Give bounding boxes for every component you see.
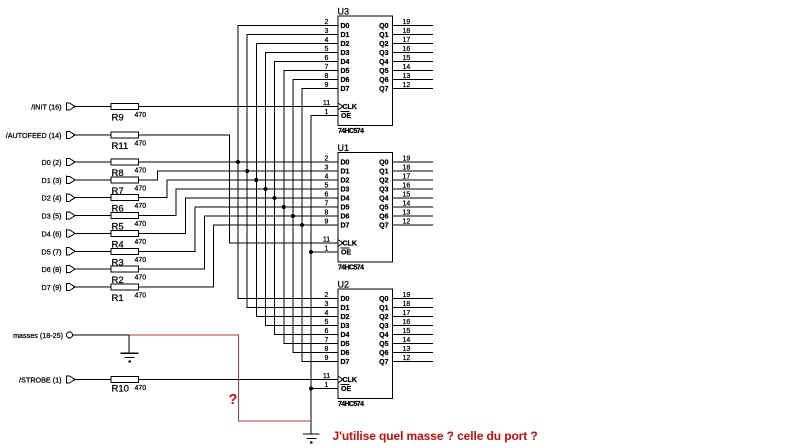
svg-text:D0 (2): D0 (2) xyxy=(42,158,62,167)
svg-text:D2 (4): D2 (4) xyxy=(42,194,62,203)
resistor R6 470 xyxy=(111,195,146,215)
svg-text:Q2: Q2 xyxy=(379,178,388,185)
wire D2 (4) to R6 xyxy=(75,197,111,199)
svg-text:R1: R1 xyxy=(112,293,124,304)
wire D5 (7) to R3 xyxy=(75,250,111,252)
resistor R1 470 xyxy=(111,284,146,304)
svg-text:D1: D1 xyxy=(341,305,350,312)
input connector D7 (9) xyxy=(42,283,75,292)
svg-text:Q4: Q4 xyxy=(379,59,388,66)
wire D2 bus vertical to U3 D2 and U2 D2 xyxy=(256,44,338,317)
svg-text:R9: R9 xyxy=(112,113,124,124)
svg-text:1: 1 xyxy=(325,382,329,389)
svg-text:D3: D3 xyxy=(341,187,350,194)
svg-text:D3: D3 xyxy=(341,50,350,57)
svg-text:D1 (3): D1 (3) xyxy=(42,176,62,185)
svg-text:470: 470 xyxy=(135,203,147,210)
U2 designator label xyxy=(338,280,350,290)
U1 designator label xyxy=(338,143,350,153)
svg-text:D5: D5 xyxy=(341,205,350,212)
U3 left pin numbers 2-9 xyxy=(325,19,329,89)
svg-text:5: 5 xyxy=(325,319,329,326)
svg-text:17: 17 xyxy=(403,174,411,181)
resistor R11 470 xyxy=(111,132,146,152)
svg-text:R10: R10 xyxy=(112,384,129,395)
U2 right pin numbers 19-12 xyxy=(403,292,411,362)
svg-text:4: 4 xyxy=(325,310,329,317)
resistor R9 470 xyxy=(111,104,146,124)
svg-text:18: 18 xyxy=(403,165,411,172)
wire D2 net: R6 to U1 D2 pin 4 xyxy=(139,180,339,198)
wire U2 OE pin 1 xyxy=(311,388,338,390)
svg-text:3: 3 xyxy=(325,165,329,172)
svg-text:8: 8 xyxy=(325,73,329,80)
wire D0 net: R8 to U1 D0 pin 2 xyxy=(139,161,339,163)
svg-text:Q6: Q6 xyxy=(379,350,388,357)
input connector D2 (4) xyxy=(42,194,75,203)
svg-text:D2: D2 xyxy=(341,314,350,321)
junction D5 bus / U1 D5 xyxy=(282,205,286,209)
input connector /STROBE (1) xyxy=(19,375,75,384)
svg-text:D3: D3 xyxy=(341,323,350,330)
svg-text:9: 9 xyxy=(325,82,329,89)
svg-text:1: 1 xyxy=(325,109,329,116)
svg-text:OE: OE xyxy=(341,113,351,120)
junction D2 bus / U1 D2 xyxy=(254,178,258,182)
svg-text:12: 12 xyxy=(403,355,411,362)
svg-text:Q0: Q0 xyxy=(379,160,388,167)
wire D1 (3) to R7 xyxy=(75,179,111,181)
ground symbol below U2 xyxy=(303,434,320,443)
svg-text:7: 7 xyxy=(325,201,329,208)
svg-text:Q7: Q7 xyxy=(379,359,388,366)
svg-text:D2: D2 xyxy=(341,41,350,48)
svg-text:Q3: Q3 xyxy=(379,50,388,57)
svg-text:U3: U3 xyxy=(338,7,350,17)
svg-text:18: 18 xyxy=(403,28,411,35)
wire D4 bus vertical to U3 D4 and U2 D4 xyxy=(275,62,338,335)
svg-text:D4: D4 xyxy=(341,59,350,66)
junction D6 bus / U1 D6 xyxy=(291,214,295,218)
resistor R3 470 xyxy=(111,248,146,268)
svg-text:Q1: Q1 xyxy=(379,32,388,39)
svg-text:Q4: Q4 xyxy=(379,196,388,203)
svg-text:470: 470 xyxy=(135,257,147,264)
svg-text:Q3: Q3 xyxy=(379,323,388,330)
wire D0 bus vertical to U3 D0 and U2 D0 xyxy=(238,26,338,299)
svg-text:15: 15 xyxy=(403,55,411,62)
svg-text:2: 2 xyxy=(325,156,329,163)
IC U3 74HC574 body xyxy=(338,16,393,126)
U1 output pin wires Q0-Q7 xyxy=(393,162,434,225)
junction D3 bus / U1 D3 xyxy=(263,187,267,191)
wire D3 (5) to R5 xyxy=(75,215,111,217)
svg-text:9: 9 xyxy=(325,355,329,362)
svg-text:2: 2 xyxy=(325,19,329,26)
svg-text:D2: D2 xyxy=(341,178,350,185)
junction OE net at U2 OE xyxy=(309,387,313,391)
svg-text:6: 6 xyxy=(325,55,329,62)
U2 output pin wires Q0-Q7 xyxy=(393,299,434,362)
svg-text:5: 5 xyxy=(325,183,329,190)
svg-text:8: 8 xyxy=(325,210,329,217)
svg-text:470: 470 xyxy=(135,168,147,175)
svg-text:Q6: Q6 xyxy=(379,77,388,84)
svg-text:D3 (5): D3 (5) xyxy=(42,212,62,221)
svg-text:7: 7 xyxy=(325,337,329,344)
svg-text:D7: D7 xyxy=(341,86,350,93)
U2 OE pin label with overline, pin 1 xyxy=(325,382,352,393)
svg-text:470: 470 xyxy=(135,141,147,148)
svg-text:CLK: CLK xyxy=(343,377,357,384)
svg-text:D4: D4 xyxy=(341,332,350,339)
svg-text:D6 (8): D6 (8) xyxy=(42,265,62,274)
U1 OE pin label with overline, pin 1 xyxy=(325,246,352,257)
U1 output pin labels Q0-Q7 xyxy=(379,160,388,230)
svg-text:470: 470 xyxy=(135,239,147,246)
svg-text:19: 19 xyxy=(403,19,411,26)
U3 input pin labels D0-D7 xyxy=(341,23,350,93)
svg-text:D6: D6 xyxy=(341,214,350,221)
ground symbol at masses xyxy=(121,335,139,362)
wire D6 (8) to R2 xyxy=(75,268,111,270)
U3 OE pin label with overline, pin 1 xyxy=(325,109,352,120)
wire D5 net: R3 to U1 D5 pin 7 xyxy=(139,207,339,251)
svg-text:12: 12 xyxy=(403,219,411,226)
wire D0 (2) to R8 xyxy=(75,161,111,163)
U2 CLK pin label with clock mark, pin 11 xyxy=(323,373,357,384)
svg-text:/INIT (16): /INIT (16) xyxy=(31,103,61,112)
svg-text:11: 11 xyxy=(323,373,330,380)
svg-text:6: 6 xyxy=(325,328,329,335)
wire /AUTOFEED (14) to R11 xyxy=(75,134,111,136)
svg-text:D7: D7 xyxy=(341,359,350,366)
svg-text:Q5: Q5 xyxy=(379,341,388,348)
svg-text:14: 14 xyxy=(403,64,411,71)
input connector D3 (5) xyxy=(42,211,75,220)
input connector D4 (6) xyxy=(42,229,75,238)
wire D3 bus vertical to U3 D3 and U2 D3 xyxy=(265,53,338,326)
svg-text:13: 13 xyxy=(403,73,411,80)
svg-text:masses (18-25): masses (18-25) xyxy=(13,331,63,340)
svg-text:470: 470 xyxy=(135,221,147,228)
wire D1 bus vertical to U3 D1 and U2 D1 xyxy=(247,35,338,308)
svg-text:470: 470 xyxy=(135,385,147,392)
wire /AUTOFEED net: R11 to U1 CLK pin 11 xyxy=(139,135,339,243)
svg-text:470: 470 xyxy=(135,112,147,119)
wire D7 net: R1 to U1 D7 pin 9 xyxy=(139,225,339,287)
wire D7 bus vertical to U3 D7 and U2 D7 xyxy=(302,89,338,362)
svg-text:Q5: Q5 xyxy=(379,68,388,75)
svg-text:/AUTOFEED (14): /AUTOFEED (14) xyxy=(6,131,62,140)
input connector /AUTOFEED (14) xyxy=(6,131,75,140)
svg-text:74HC574: 74HC574 xyxy=(338,265,364,272)
svg-text:D1: D1 xyxy=(341,32,350,39)
svg-text:11: 11 xyxy=(323,237,330,244)
svg-text:14: 14 xyxy=(403,337,411,344)
svg-text:D6: D6 xyxy=(341,77,350,84)
svg-text:470: 470 xyxy=(135,275,147,282)
IC U1 74HC574 body xyxy=(338,153,393,263)
svg-text:D5 (7): D5 (7) xyxy=(42,247,62,256)
resistor R5 470 xyxy=(111,213,146,233)
svg-text:D5: D5 xyxy=(341,68,350,75)
U3 CLK pin label with clock mark, pin 11 xyxy=(323,100,357,111)
wire OE net: U3 OE pin 1 down to ground xyxy=(311,116,338,434)
svg-text:CLK: CLK xyxy=(343,104,357,111)
svg-text:3: 3 xyxy=(325,301,329,308)
svg-text:8: 8 xyxy=(325,346,329,353)
svg-text:D7 (9): D7 (9) xyxy=(42,283,62,292)
svg-text:U1: U1 xyxy=(338,143,350,153)
red annotation question mark xyxy=(229,392,238,408)
wire /STROBE (1) to R10 xyxy=(75,379,111,381)
wire D4 (6) to R4 xyxy=(75,232,111,234)
input connector D6 (8) xyxy=(42,265,75,274)
U1 part label 74HC574 xyxy=(338,265,364,272)
svg-text:D6: D6 xyxy=(341,350,350,357)
svg-text:74HC574: 74HC574 xyxy=(338,128,364,135)
svg-text:15: 15 xyxy=(403,328,411,335)
svg-text:13: 13 xyxy=(403,210,411,217)
wire D5 bus vertical to U3 D5 and U2 D5 xyxy=(284,71,338,344)
svg-text:9: 9 xyxy=(325,219,329,226)
svg-text:4: 4 xyxy=(325,37,329,44)
svg-text:7: 7 xyxy=(325,64,329,71)
U1 left pin numbers 2-9 xyxy=(325,156,329,226)
svg-text:Q7: Q7 xyxy=(379,223,388,230)
wire D4 net: R4 to U1 D4 pin 6 xyxy=(139,198,339,233)
U3 output pin labels Q0-Q7 xyxy=(379,23,388,93)
svg-text:Q2: Q2 xyxy=(379,314,388,321)
junction OE net at U1 OE xyxy=(309,250,313,254)
svg-text:Q0: Q0 xyxy=(379,23,388,30)
svg-text:2: 2 xyxy=(325,292,329,299)
wire /STROBE net: R10 to U2 CLK pin 11 xyxy=(139,379,339,381)
svg-text:11: 11 xyxy=(323,100,330,107)
svg-text:Q7: Q7 xyxy=(379,86,388,93)
svg-text:D5: D5 xyxy=(341,341,350,348)
svg-text:D4 (6): D4 (6) xyxy=(42,229,62,238)
svg-text:Q4: Q4 xyxy=(379,332,388,339)
svg-text:19: 19 xyxy=(403,292,411,299)
svg-text:6: 6 xyxy=(325,192,329,199)
U1 CLK pin label with clock mark, pin 11 xyxy=(323,237,357,248)
wire U1 OE pin 1 xyxy=(311,251,338,253)
junction D4 bus / U1 D4 xyxy=(273,196,277,200)
U1 input pin labels D0-D7 xyxy=(341,160,350,230)
wire masses to ground tap xyxy=(73,334,130,336)
svg-text:Q1: Q1 xyxy=(379,305,388,312)
red annotation text xyxy=(333,429,538,443)
U1 right pin numbers 19-12 xyxy=(403,156,411,226)
wire D6 net: R2 to U1 D6 pin 8 xyxy=(139,216,339,269)
svg-text:4: 4 xyxy=(325,174,329,181)
junction D0 bus / U1 D0 xyxy=(236,160,240,164)
wire D6 bus vertical to U3 D6 and U2 D6 xyxy=(293,80,338,353)
U2 input pin labels D0-D7 xyxy=(341,296,350,366)
resistor R7 470 xyxy=(111,177,146,197)
wire D1 net: R7 to U1 D1 pin 3 xyxy=(139,171,339,180)
svg-text:14: 14 xyxy=(403,201,411,208)
svg-text:13: 13 xyxy=(403,346,411,353)
svg-text:12: 12 xyxy=(403,82,411,89)
svg-text:470: 470 xyxy=(135,293,147,300)
svg-text:D0: D0 xyxy=(341,160,350,167)
svg-text:/STROBE (1): /STROBE (1) xyxy=(19,376,61,385)
input connector /INIT (16) xyxy=(31,102,75,111)
svg-text:5: 5 xyxy=(325,46,329,53)
wire /INIT net: R9 to U3 CLK pin 11 xyxy=(139,106,339,108)
U3 designator label xyxy=(338,7,350,17)
svg-text:D7: D7 xyxy=(341,223,350,230)
junction D1 bus / U1 D1 xyxy=(245,169,249,173)
resistor R8 470 xyxy=(111,159,146,179)
svg-text:16: 16 xyxy=(403,319,411,326)
svg-text:Q3: Q3 xyxy=(379,187,388,194)
svg-text:J'utilise quel masse ? celle d: J'utilise quel masse ? celle du port ? xyxy=(333,429,538,443)
svg-text:D4: D4 xyxy=(341,196,350,203)
U3 part label 74HC574 xyxy=(338,128,364,135)
svg-text:R11: R11 xyxy=(112,141,129,152)
svg-text:D1: D1 xyxy=(341,169,350,176)
svg-text:17: 17 xyxy=(403,37,411,44)
svg-text:CLK: CLK xyxy=(343,241,357,248)
svg-text:17: 17 xyxy=(403,310,411,317)
svg-text:470: 470 xyxy=(135,185,147,192)
U2 output pin labels Q0-Q7 xyxy=(379,296,388,366)
svg-text:OE: OE xyxy=(341,250,351,257)
wire D7 (9) to R1 xyxy=(75,286,111,288)
svg-text:74HC574: 74HC574 xyxy=(338,401,364,408)
svg-text:Q6: Q6 xyxy=(379,214,388,221)
U2 left pin numbers 2-9 xyxy=(325,292,329,362)
input connector D1 (3) xyxy=(42,176,75,185)
svg-text:1: 1 xyxy=(325,246,329,253)
resistor R10 470 xyxy=(111,377,146,395)
resistor R2 470 xyxy=(111,266,146,286)
U3 right pin numbers 19-12 xyxy=(403,19,411,89)
svg-text:Q5: Q5 xyxy=(379,205,388,212)
svg-text:OE: OE xyxy=(341,386,351,393)
svg-text:19: 19 xyxy=(403,156,411,163)
IC U2 74HC574 body xyxy=(338,289,393,399)
wire D3 net: R5 to U1 D3 pin 5 xyxy=(139,189,339,216)
wire (red) masses to OE ground net xyxy=(129,335,311,421)
svg-text:15: 15 xyxy=(403,192,411,199)
svg-text:Q2: Q2 xyxy=(379,41,388,48)
junction D7 bus / U1 D7 xyxy=(300,223,304,227)
U2 part label 74HC574 xyxy=(338,401,364,408)
svg-text:?: ? xyxy=(229,392,238,408)
svg-text:18: 18 xyxy=(403,301,411,308)
U3 output pin wires Q0-Q7 xyxy=(393,26,434,89)
svg-text:3: 3 xyxy=(325,28,329,35)
svg-text:16: 16 xyxy=(403,183,411,190)
svg-text:D0: D0 xyxy=(341,296,350,303)
input connector D5 (7) xyxy=(42,247,75,256)
svg-text:D0: D0 xyxy=(341,23,350,30)
input connector D0 (2) xyxy=(42,158,75,167)
svg-text:Q0: Q0 xyxy=(379,296,388,303)
input connector masses (18-25) xyxy=(13,331,72,340)
svg-text:U2: U2 xyxy=(338,280,350,290)
svg-text:16: 16 xyxy=(403,46,411,53)
wire /INIT (16) to R9 xyxy=(75,106,111,108)
resistor R4 470 xyxy=(111,230,146,250)
svg-text:Q1: Q1 xyxy=(379,169,388,176)
